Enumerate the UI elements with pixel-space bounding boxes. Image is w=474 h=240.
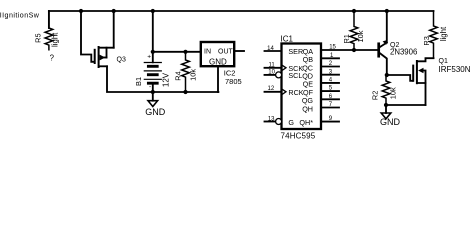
node IgnitionSw bbox=[0, 11, 40, 19]
pin 6 QG bbox=[302, 94, 339, 105]
svg-text:2N3906: 2N3906 bbox=[390, 48, 417, 57]
svg-text:?: ? bbox=[50, 53, 55, 62]
svg-text:light: light bbox=[439, 26, 448, 41]
pin 5 QF bbox=[303, 86, 339, 97]
resistor R3 bbox=[422, 11, 448, 58]
svg-text:R1: R1 bbox=[342, 34, 351, 43]
svg-text:12: 12 bbox=[268, 86, 275, 92]
transistor Q2 bbox=[379, 11, 418, 75]
svg-text:+: + bbox=[147, 54, 151, 61]
resistor R5 bbox=[34, 11, 60, 62]
svg-text:G: G bbox=[288, 118, 294, 127]
svg-text:SCL: SCL bbox=[288, 71, 302, 80]
svg-text:7805: 7805 bbox=[225, 77, 242, 86]
pin 7 QH bbox=[302, 102, 339, 113]
wire +node to 7805 IN bbox=[153, 51, 201, 53]
pin 2 QC bbox=[302, 61, 339, 72]
junction R4 top bbox=[183, 50, 187, 54]
junction +node bbox=[151, 50, 155, 54]
wire Q3 gate bbox=[81, 11, 94, 62]
wire Q3 drain bbox=[113, 11, 115, 48]
svg-text:10k: 10k bbox=[356, 30, 365, 42]
wire R5 drop bbox=[48, 11, 50, 28]
svg-text:R2: R2 bbox=[371, 91, 380, 100]
junction Q3 gate on rail bbox=[79, 9, 83, 13]
wire 7805 OUT stub bbox=[234, 50, 244, 52]
ground battery GND bbox=[145, 92, 166, 117]
wire 12V from rail to +node bbox=[152, 11, 154, 52]
svg-text:R5: R5 bbox=[34, 33, 43, 42]
pin 13 G enable bbox=[265, 116, 295, 127]
battery B1 bbox=[134, 52, 171, 92]
junction Q3 drain on rail bbox=[112, 9, 116, 13]
pin 1 QB bbox=[303, 53, 339, 64]
svg-text:10: 10 bbox=[268, 69, 275, 75]
svg-text:QH*: QH* bbox=[299, 118, 313, 127]
svg-text:15: 15 bbox=[329, 45, 336, 51]
transistor Q1 bbox=[413, 58, 471, 105]
svg-text:IIgnitionSw: IIgnitionSw bbox=[0, 11, 40, 19]
junction R1 top on rail bbox=[352, 9, 356, 13]
svg-text:SER: SER bbox=[288, 47, 303, 56]
pin 10 SCL bbox=[265, 69, 303, 80]
resistor R4 bbox=[174, 52, 198, 92]
svg-text:R3: R3 bbox=[422, 36, 431, 45]
svg-text:OUT: OUT bbox=[218, 48, 234, 55]
svg-text:74HC595: 74HC595 bbox=[281, 132, 316, 141]
transistor Q3 bbox=[95, 47, 126, 67]
svg-text:B1: B1 bbox=[134, 77, 143, 86]
svg-text:12V: 12V bbox=[161, 72, 170, 87]
svg-text:GND: GND bbox=[380, 117, 401, 127]
pin 12 RCK bbox=[265, 86, 304, 97]
svg-text:IC1: IC1 bbox=[281, 34, 294, 43]
wire top rail bbox=[49, 10, 434, 12]
svg-text:GND: GND bbox=[209, 58, 227, 67]
shift register IC1 74HC595 bbox=[281, 34, 322, 140]
svg-text:IRF530N: IRF530N bbox=[439, 65, 471, 74]
pin 9 QH' bbox=[299, 116, 339, 127]
svg-text:11: 11 bbox=[268, 63, 275, 69]
junction battery bottom bbox=[151, 90, 155, 94]
pin 3 QD bbox=[302, 69, 339, 80]
wire Q3 source to ground rail bbox=[107, 66, 218, 92]
svg-text:light: light bbox=[50, 32, 59, 47]
regulator IC2 7805 bbox=[201, 42, 242, 86]
resistor R1 bbox=[342, 11, 365, 50]
svg-text:Q3: Q3 bbox=[117, 57, 126, 64]
pin 11 SCK bbox=[265, 63, 304, 73]
svg-text:IN: IN bbox=[204, 48, 211, 55]
svg-text:13: 13 bbox=[268, 116, 275, 122]
resistor R2 bbox=[371, 75, 398, 105]
wire 7805 GND leg bbox=[217, 66, 219, 92]
svg-text:QH: QH bbox=[302, 104, 313, 113]
svg-text:-: - bbox=[149, 84, 151, 91]
junction R4 bottom bbox=[183, 90, 187, 94]
svg-text:10k: 10k bbox=[389, 87, 398, 99]
pin 4 QE bbox=[303, 78, 339, 89]
junction R2 bottom bbox=[384, 103, 388, 107]
svg-text:10k: 10k bbox=[189, 69, 198, 81]
junction R1 bottom on QA wire bbox=[352, 48, 356, 52]
svg-text:R4: R4 bbox=[174, 71, 183, 80]
pin 15 QA bbox=[303, 45, 378, 56]
wire Q2 node to Q1 gate bbox=[387, 75, 413, 81]
wire R2 bottom to Q1 source bbox=[386, 104, 426, 106]
pin 14 SER bbox=[265, 46, 304, 56]
junction battery + on rail bbox=[151, 9, 155, 13]
ground R2 GND bbox=[380, 105, 401, 127]
svg-text:14: 14 bbox=[267, 46, 274, 52]
svg-text:GND: GND bbox=[145, 107, 166, 117]
junction Q2 collector on rail bbox=[385, 9, 389, 13]
junction Q2 emitter node bbox=[385, 73, 389, 77]
